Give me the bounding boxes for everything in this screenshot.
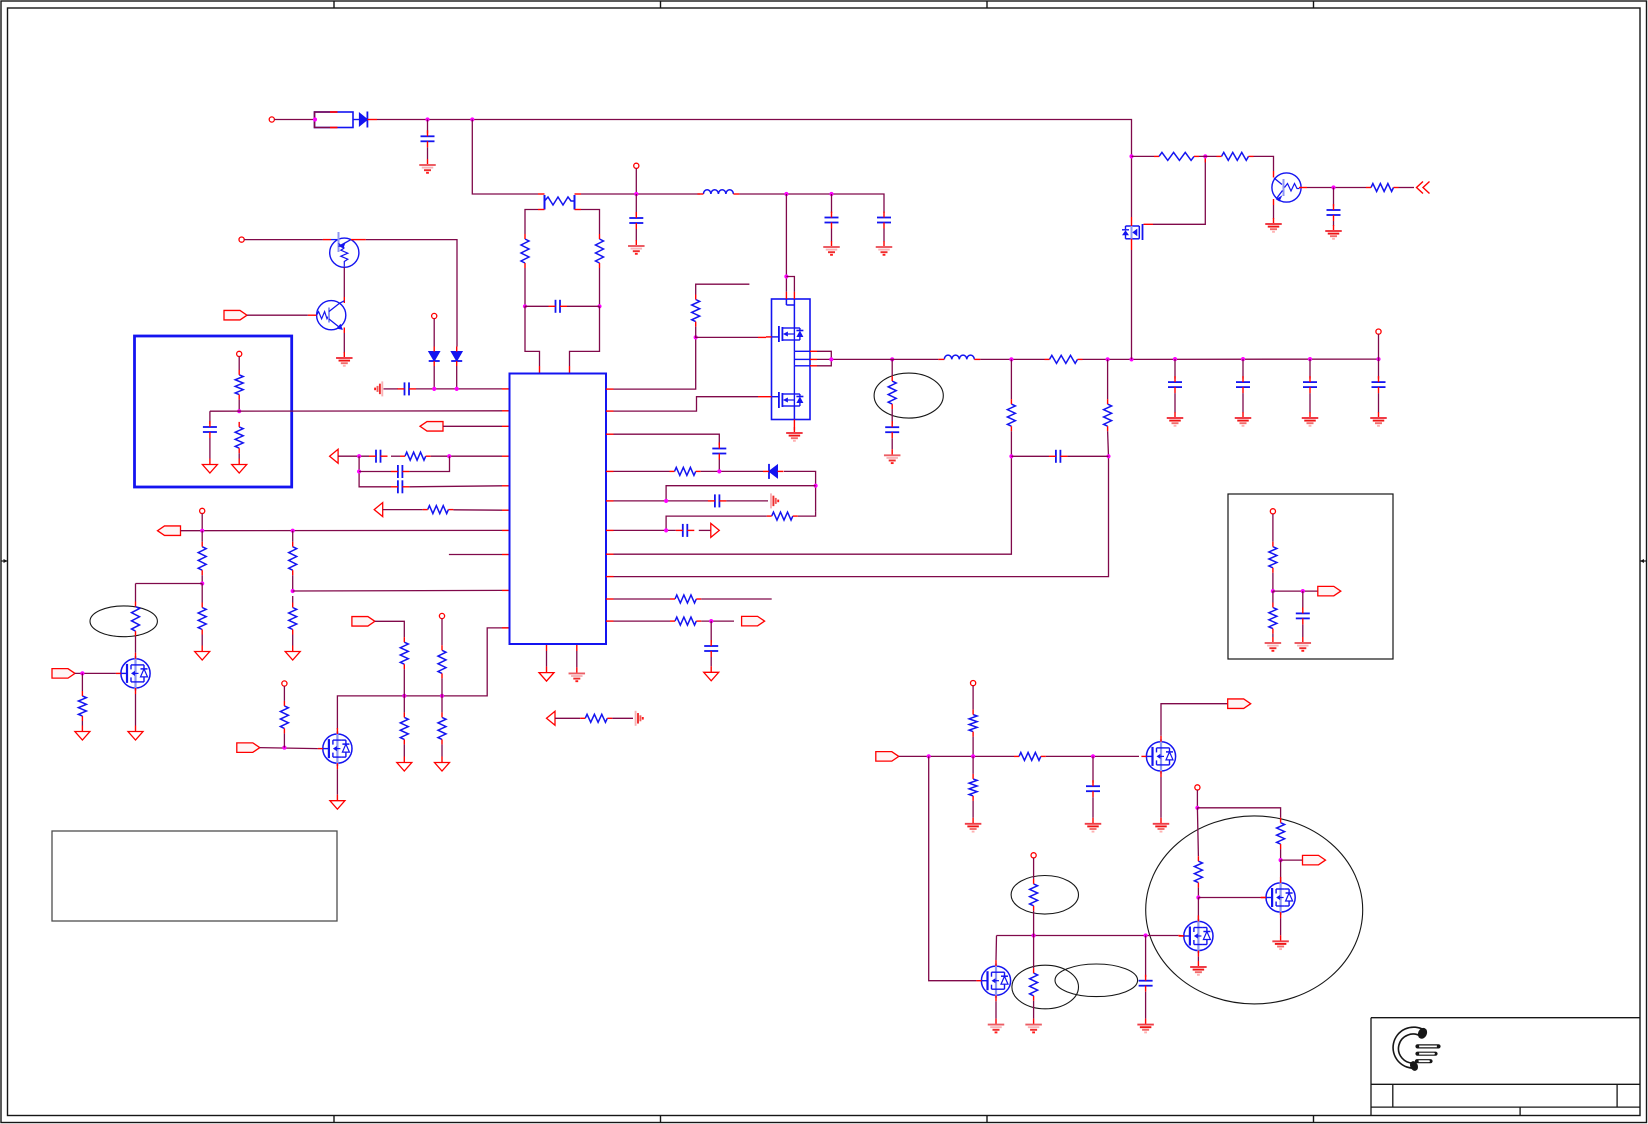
junction	[814, 484, 818, 488]
wire acset d3	[201, 584, 203, 603]
junction	[784, 274, 788, 278]
tag port	[237, 743, 260, 753]
resistor R19	[692, 295, 700, 327]
terminal	[282, 681, 287, 686]
wire e2a	[135, 584, 137, 602]
wire d2 out	[433, 366, 435, 389]
junction	[664, 499, 668, 503]
capacitor C16	[1049, 450, 1068, 463]
tag port	[1228, 699, 1251, 709]
wire pkg top2	[786, 277, 794, 292]
resistor R1	[521, 234, 529, 268]
junction	[1009, 357, 1013, 361]
wire q3 gate	[75, 672, 116, 674]
tag port	[742, 616, 765, 626]
mosfet Q10	[1179, 915, 1213, 956]
gnd flag	[202, 459, 217, 474]
wire q9 src	[1280, 918, 1282, 935]
pin	[502, 529, 510, 531]
wire vref2	[238, 400, 240, 412]
wire acset rail	[181, 529, 503, 531]
resistor R34	[1014, 752, 1046, 760]
wire q4 src	[336, 769, 338, 795]
mosfet Q4	[318, 728, 352, 769]
resistor R18	[580, 714, 612, 722]
transistor Q7	[1272, 171, 1307, 205]
wire div1	[1010, 359, 1012, 399]
tag port	[224, 310, 247, 320]
wire tag q2	[247, 314, 308, 316]
junction	[664, 528, 668, 532]
wire ilim2	[453, 509, 502, 511]
wire gate run	[929, 756, 977, 980]
ground side	[375, 381, 382, 396]
capacitor C9	[391, 465, 410, 478]
wire ilim	[383, 509, 423, 511]
mosfet Q11	[976, 960, 1010, 1001]
gnd flag	[285, 646, 300, 661]
wire vb2	[1197, 808, 1280, 818]
pin	[502, 554, 510, 556]
tag port	[876, 752, 899, 762]
junction	[402, 694, 406, 698]
wire comp4	[409, 486, 502, 487]
wire ioutc2	[710, 657, 712, 666]
junction	[1106, 357, 1110, 361]
wire icgnd2	[576, 651, 578, 667]
resistor R3	[235, 370, 243, 400]
wire to sense res	[472, 120, 538, 195]
ground	[1025, 1019, 1042, 1033]
pin	[1204, 156, 1206, 162]
wire long2	[614, 456, 1109, 576]
wire vb8	[1197, 898, 1199, 922]
pin	[606, 553, 614, 555]
wire ss	[614, 529, 676, 531]
wire r13b	[403, 669, 405, 696]
wire kelvin r2	[599, 268, 601, 306]
wire r19 top	[696, 284, 750, 294]
blue box	[135, 336, 292, 487]
wire input	[274, 119, 314, 121]
pin	[569, 366, 571, 374]
dual mosfet package U2	[772, 299, 811, 420]
flag	[547, 711, 556, 725]
resistor R33	[969, 710, 977, 737]
capacitor Cout	[1236, 359, 1250, 412]
wire fbloop	[666, 486, 816, 501]
wire q11 src	[995, 1001, 997, 1018]
pin	[502, 425, 510, 427]
tag port	[420, 422, 443, 432]
wire fr2	[612, 717, 633, 719]
capacitor C2	[629, 194, 643, 241]
logo	[1393, 1026, 1440, 1072]
pin	[758, 336, 766, 338]
diode D1	[353, 112, 377, 128]
wire q10 gate rail	[997, 935, 1179, 937]
wire deadend2	[701, 598, 771, 600]
wire rg a	[1132, 155, 1155, 157]
terminal d1	[432, 313, 437, 318]
junction	[1196, 895, 1200, 899]
gnd flag	[704, 666, 719, 681]
border tick top	[1313, 1, 1315, 8]
resistor R10	[289, 603, 297, 635]
junction	[717, 469, 721, 473]
wire boot	[614, 434, 720, 445]
wire r4 down	[238, 453, 240, 458]
capacitor C4	[877, 212, 891, 242]
junction	[455, 387, 459, 391]
junction	[432, 387, 436, 391]
wire r10b	[292, 596, 294, 603]
terminal vreg	[634, 163, 639, 168]
resistor R37	[1194, 856, 1202, 887]
transistor Q1	[323, 232, 366, 267]
fuse F1	[315, 112, 354, 128]
junction	[1195, 806, 1199, 810]
junction	[1129, 357, 1133, 361]
resistor R12	[78, 691, 86, 721]
gnd flag	[539, 667, 554, 682]
wire comp loop	[359, 456, 391, 487]
pin	[502, 485, 510, 487]
transistor Q2	[308, 297, 346, 333]
diode D2	[429, 347, 440, 367]
junction	[1091, 754, 1095, 758]
resistor R24	[1045, 355, 1083, 363]
wire comp loop3	[409, 456, 449, 471]
wire q4g up2	[283, 733, 285, 747]
wire e2b	[135, 636, 137, 653]
ground	[628, 240, 645, 254]
capacitor C13	[676, 524, 695, 537]
wire vreg	[635, 168, 637, 194]
resistor R25	[888, 376, 896, 409]
ground	[1153, 818, 1170, 832]
tag port	[52, 669, 75, 679]
pin	[502, 589, 510, 591]
wire br6	[1092, 797, 1094, 818]
capacitor Cout	[1303, 359, 1317, 412]
pin	[758, 396, 766, 398]
junction	[694, 335, 698, 339]
resistor R9	[289, 542, 297, 576]
border arrow right	[1640, 559, 1647, 563]
wire q4g up	[283, 686, 285, 701]
wire sense e2	[891, 409, 893, 424]
ellipse E2	[90, 606, 157, 637]
wire comp2	[391, 455, 400, 457]
capacitor C12	[708, 494, 727, 507]
resistor R11	[132, 602, 140, 637]
capacitor C17	[1327, 204, 1341, 221]
wire boot2	[718, 460, 720, 472]
wire sense e1	[891, 359, 893, 376]
terminal	[1031, 853, 1036, 858]
wire vfb2	[726, 500, 768, 502]
capacitor Cout	[1372, 359, 1386, 412]
pin	[606, 598, 614, 600]
capacitor C5	[549, 300, 568, 313]
wire acset d4	[201, 635, 203, 646]
wire vref	[238, 357, 240, 371]
junction	[447, 454, 451, 458]
mosfet Q5B	[766, 392, 803, 408]
wire r14a	[403, 696, 405, 713]
ground	[965, 818, 982, 832]
ground	[1302, 412, 1319, 426]
wire q8 src	[1160, 777, 1162, 818]
mosfet Q9	[1261, 877, 1295, 918]
offpage chevron	[1417, 182, 1430, 194]
big circle	[1146, 816, 1363, 1004]
wire kelvin right	[581, 210, 600, 235]
ellipse E1	[874, 373, 943, 418]
resistor R8	[198, 603, 206, 635]
wire vout t	[1378, 334, 1380, 359]
wire r16a	[441, 696, 443, 713]
pin	[606, 433, 614, 435]
wire comp1	[338, 455, 369, 457]
wire rg c	[1254, 156, 1274, 171]
resistor R14	[400, 712, 408, 744]
junction	[1271, 589, 1275, 593]
wire vb5	[1280, 860, 1282, 883]
border tick bottom	[986, 1116, 988, 1123]
resistor R13	[400, 637, 408, 669]
pin	[502, 627, 510, 629]
junction	[1144, 933, 1148, 937]
wire csn	[570, 306, 600, 366]
resistor Rsense	[538, 194, 581, 210]
resistor R2	[596, 234, 604, 268]
capacitor C6	[398, 382, 417, 395]
ground side	[636, 711, 643, 726]
gnd flag	[435, 757, 450, 772]
capacitor C15	[885, 421, 899, 438]
gnd flag	[128, 726, 143, 741]
capacitor C10	[391, 480, 410, 493]
resistor R31	[1269, 542, 1277, 573]
resistor R29	[1217, 152, 1254, 160]
wire q7 col	[1307, 187, 1366, 189]
inductor L2	[938, 355, 980, 359]
wire br rail	[899, 755, 1014, 757]
wire e3a	[1033, 936, 1035, 969]
border tick top	[660, 1, 662, 8]
wire acset d2	[201, 575, 203, 583]
tag port	[1303, 855, 1326, 865]
resistor R30	[1366, 184, 1399, 192]
ground side	[771, 493, 778, 508]
wire q8 drain	[1161, 704, 1229, 736]
pin	[502, 388, 510, 390]
junction	[282, 746, 286, 750]
wire kelvin l2	[524, 268, 526, 306]
gnd flag	[330, 795, 345, 810]
wire vfb	[614, 500, 709, 502]
wire br2	[972, 737, 974, 757]
wire br5	[1092, 756, 1094, 782]
wire acset t	[201, 514, 203, 531]
ground	[876, 241, 893, 255]
wire q2 em	[343, 333, 345, 353]
capacitor C1	[421, 120, 435, 160]
wire e6b	[1033, 911, 1035, 936]
wire bb6	[1302, 591, 1304, 610]
wire ss2	[699, 529, 711, 531]
resistor R23	[670, 617, 701, 625]
wire iout	[614, 620, 671, 622]
pin	[786, 292, 794, 299]
wire divc	[1011, 455, 1049, 457]
gnd flag	[397, 757, 412, 772]
wire q7 em	[1273, 205, 1275, 219]
wire pkg top	[785, 194, 787, 292]
pin	[539, 366, 541, 374]
wire gate1	[696, 327, 758, 338]
wire q7c c2	[1333, 221, 1335, 226]
wire bb7	[1302, 624, 1304, 637]
wire r21b	[666, 516, 767, 530]
wire lx2	[701, 470, 763, 472]
wire deadend	[614, 598, 671, 600]
border tick top	[333, 1, 335, 8]
resistor R28	[1154, 152, 1199, 160]
pin	[606, 620, 614, 622]
flag	[711, 523, 720, 537]
wire kelvin left	[525, 210, 538, 235]
wire bb4	[1272, 591, 1274, 602]
wire en	[337, 628, 509, 730]
resistor R5	[400, 452, 431, 460]
wire l1 out	[739, 194, 884, 213]
pin	[606, 576, 614, 578]
resistor R38	[1030, 879, 1038, 911]
ground	[786, 427, 803, 441]
resistor R22	[670, 595, 701, 603]
tag port	[1318, 586, 1341, 596]
wire iout2	[701, 620, 734, 622]
pin	[606, 470, 614, 472]
wire e6a	[1033, 858, 1035, 879]
wire bb5	[1272, 634, 1274, 637]
pin	[810, 351, 817, 366]
wire q7 out	[1399, 187, 1415, 189]
junction	[470, 117, 474, 121]
junction	[709, 619, 713, 623]
wire capb	[1145, 936, 1147, 978]
gnd flag	[195, 646, 210, 661]
wire fr	[555, 717, 580, 719]
wire ldrv	[614, 397, 759, 411]
wire div2b	[1107, 431, 1110, 456]
wire r9b	[292, 575, 294, 591]
junction	[1203, 154, 1207, 158]
junction	[291, 529, 295, 533]
wire hs	[1131, 250, 1133, 359]
capacitor C11	[712, 443, 726, 460]
wire q10 src	[1197, 957, 1199, 961]
junction	[1376, 357, 1380, 361]
wire rg b	[1199, 155, 1217, 157]
capacitor Cout	[1168, 359, 1182, 412]
terminal vbat	[1195, 785, 1200, 790]
border tick bottom	[1313, 1116, 1315, 1123]
pin	[1178, 935, 1184, 937]
wire r16b	[441, 744, 443, 756]
mosfet Q5A	[766, 326, 803, 342]
wire d1	[433, 319, 435, 347]
resistor R15	[438, 645, 446, 678]
junction	[1129, 154, 1133, 158]
note box	[52, 831, 337, 921]
pin	[606, 500, 614, 502]
wire br4	[972, 801, 974, 818]
wire capb2	[1145, 992, 1147, 1019]
pin	[546, 644, 548, 651]
wire comp loop2	[359, 471, 391, 473]
wire q3g r	[81, 673, 83, 691]
junction	[1279, 858, 1283, 862]
inductor L1	[697, 190, 739, 194]
tag port	[158, 526, 181, 536]
wire rail c	[1083, 358, 1379, 360]
ground	[1085, 818, 1102, 832]
resistor R36	[1277, 818, 1285, 849]
wire r9a	[292, 531, 294, 542]
resistor R4	[235, 422, 243, 453]
title block	[1371, 1018, 1640, 1116]
resistor R39	[1030, 968, 1038, 1001]
wire t8	[441, 619, 443, 646]
wire pin1 rail	[416, 388, 502, 390]
junction	[313, 117, 317, 121]
wire fb	[210, 410, 502, 412]
junction	[597, 304, 601, 308]
junction	[80, 671, 84, 675]
capacitor C18	[1296, 607, 1310, 624]
border tick bottom	[660, 1116, 662, 1123]
capacitor C8	[369, 450, 388, 463]
ground	[1265, 637, 1282, 651]
capacitor C3	[825, 194, 839, 242]
pin	[606, 410, 614, 412]
capacitor C20	[1139, 975, 1153, 992]
wire e3b	[1033, 1001, 1035, 1019]
ground	[884, 449, 901, 463]
wire vset rail	[293, 589, 502, 592]
ground	[1370, 412, 1387, 426]
wire r15b	[441, 678, 443, 696]
ground	[1272, 935, 1289, 949]
resistor R7	[198, 542, 206, 576]
resistor R35	[969, 774, 977, 801]
wire gnd cap	[384, 388, 399, 390]
junction	[1032, 933, 1036, 937]
border arrow left	[1, 559, 8, 563]
wire rail b	[980, 358, 1044, 360]
junction	[237, 409, 241, 413]
ground	[1167, 412, 1184, 426]
diode D4	[763, 464, 784, 479]
pin	[576, 644, 578, 651]
wire divc2	[1067, 455, 1108, 457]
gnd flag	[75, 726, 90, 741]
wire q7c c	[1333, 188, 1335, 207]
